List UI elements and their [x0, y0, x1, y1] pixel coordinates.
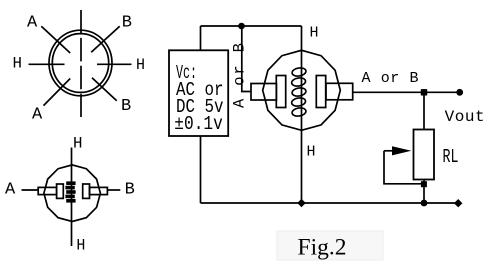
lead A wire	[22, 189, 39, 191]
heater coil (U1)	[291, 67, 306, 117]
pin B NE wire	[91, 26, 120, 52]
resistor RL	[414, 130, 435, 180]
pin B SE wire	[92, 78, 117, 101]
junction square below RL	[421, 181, 427, 187]
svg-text:RL: RL	[443, 146, 459, 168]
sensor U1 heater vertical wire	[301, 26, 303, 203]
electrode plate right (side view)	[83, 184, 90, 198]
svg-text:B: B	[125, 181, 135, 200]
svg-text:A: A	[5, 181, 16, 200]
electrode plate left (side view)	[57, 184, 64, 198]
lead B wire	[107, 189, 120, 191]
output wire A-or-B	[353, 91, 460, 93]
svg-text:H: H	[310, 25, 319, 42]
sensor top-view inner circle	[52, 34, 108, 93]
heater coil (side view)	[65, 181, 75, 202]
electrode plate left (U1)	[276, 76, 285, 108]
electrode plate right (U1)	[316, 76, 325, 108]
sensor side-view body	[44, 165, 101, 222]
svg-text:H: H	[76, 237, 85, 255]
pin stub right (U1)	[326, 83, 353, 100]
sensor U1 body	[263, 50, 341, 130]
junction dot top	[238, 23, 245, 30]
svg-text:H: H	[73, 135, 83, 153]
wire Vc box top	[200, 26, 202, 50]
svg-text:A or B: A or B	[362, 70, 419, 87]
wiper arrow line	[384, 150, 396, 152]
pin A stub	[38, 187, 56, 194]
svg-text:B: B	[122, 13, 132, 32]
svg-text:H: H	[136, 56, 145, 74]
wire Vc box bottom	[200, 136, 202, 203]
svg-text:Vout: Vout	[445, 108, 485, 126]
svg-text:±0.1v: ±0.1v	[174, 113, 223, 135]
svg-text:H: H	[307, 143, 316, 160]
heater wire vertical (side view)	[71, 148, 73, 247]
pin A SW wire	[44, 79, 71, 106]
top wire	[201, 25, 302, 27]
terminal dot Vout	[456, 89, 463, 96]
pin stub left (U1)	[251, 84, 276, 101]
caption panel	[277, 231, 383, 260]
bottom bus wire	[201, 202, 459, 204]
pin axis N-S wire	[80, 10, 82, 117]
wiper arrowhead	[392, 146, 411, 155]
junction diamond heater-bus	[297, 199, 305, 207]
voltage source Vc box	[169, 50, 228, 136]
svg-text:B: B	[121, 97, 131, 116]
wire A-or-B drop	[242, 26, 251, 92]
terminal diamond bus end	[454, 199, 462, 207]
wire RL bottom	[423, 180, 425, 204]
junction dot bus	[421, 200, 428, 207]
svg-text:H: H	[13, 55, 23, 73]
svg-text:Fig.2: Fig.2	[298, 235, 347, 261]
pin H east wire	[97, 63, 132, 65]
wiper tail wire	[384, 151, 424, 184]
junction square at output	[421, 89, 427, 95]
pin H west wire	[29, 63, 65, 65]
sensor top-view outer circle	[49, 30, 112, 96]
pin B stub	[90, 187, 108, 194]
svg-text:A: A	[27, 13, 38, 32]
wire junction to RL	[423, 92, 425, 129]
svg-text:A: A	[32, 105, 43, 124]
pin A NW wire	[41, 26, 70, 53]
